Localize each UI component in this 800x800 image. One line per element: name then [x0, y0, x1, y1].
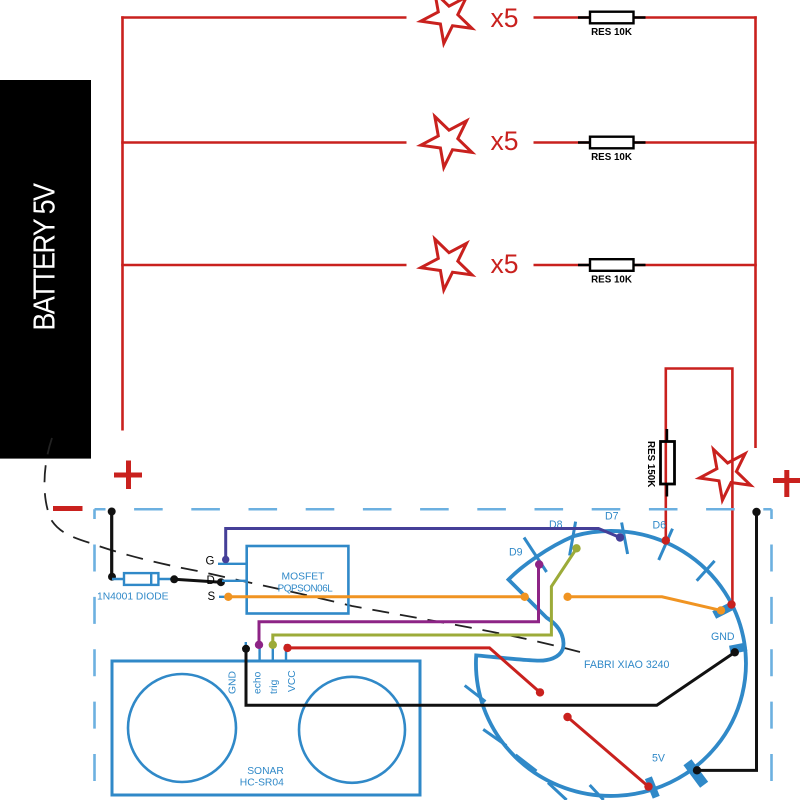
sonar HC-SR04 box [112, 661, 420, 795]
svg-text:D9: D9 [509, 547, 523, 559]
wire: VCC to 3V3 hole (red) [288, 648, 541, 693]
svg-text:RES 10K: RES 10K [591, 152, 632, 163]
pin tick tick [465, 686, 486, 702]
svg-text:echo: echo [253, 671, 264, 694]
pin GND tick [245, 642, 247, 661]
node: D6 red dot [662, 536, 670, 544]
node: battery + (left) [114, 461, 142, 490]
wire: minus rail to diode [110, 512, 113, 577]
resistor R1 RES 10K [578, 12, 646, 38]
svg-text:5V: 5V [652, 753, 666, 765]
svg-text:D: D [207, 575, 215, 587]
wire: LED row 1 left segment [121, 16, 406, 19]
svg-text:GND: GND [711, 631, 735, 643]
resistor R2 RES 10K [578, 137, 646, 163]
pad D10 [712, 601, 735, 619]
wire: hole to bottom pad (red) [568, 717, 649, 787]
pin S [219, 596, 248, 598]
node: battery + (right) [773, 470, 800, 497]
pin tick tick [697, 561, 715, 581]
wire: right + rail vertical [754, 16, 757, 448]
resistor R4 RES 150K [645, 429, 675, 497]
wire: source to D10 pad (orange) [228, 595, 524, 598]
LED star D3 (x5) [421, 239, 472, 290]
svg-text:x5: x5 [491, 249, 519, 279]
svg-text:RES 10K: RES 10K [591, 27, 632, 38]
pin D6 tick [659, 529, 673, 560]
wire: sonar GND to board GND (black) [246, 649, 735, 705]
pin D7 tick [622, 523, 628, 555]
wire: echo to D9 (magenta) [259, 565, 539, 645]
wire: 5V rail to board 5V pad (black) [697, 512, 757, 770]
node: pad red dot [727, 600, 735, 608]
svg-text:PQPSON06L: PQPSON06L [278, 584, 334, 595]
pad 5V [683, 759, 708, 787]
pin D9 tick [524, 538, 547, 573]
pad GND [729, 643, 747, 655]
wire: LED row 3 left segment [121, 264, 406, 267]
pin tick tick [548, 783, 567, 800]
svg-text:FABRI XIAO 3240: FABRI XIAO 3240 [584, 659, 669, 671]
LED star D1 (x5) [421, 0, 472, 43]
svg-text:D6: D6 [653, 520, 667, 532]
svg-text:VCC: VCC [287, 670, 298, 692]
pin tick tick [483, 729, 506, 745]
svg-text:x5: x5 [491, 126, 519, 156]
svg-text:RES 150K: RES 150K [645, 441, 656, 487]
pin VCC tick [285, 644, 287, 661]
wire: gate to D7 (indigo) [226, 529, 620, 560]
svg-text:RES 10K: RES 10K [591, 274, 632, 285]
svg-text:D7: D7 [605, 511, 619, 523]
enclosure dashed border left [93, 509, 96, 800]
svg-text:BATTERY 5V: BATTERY 5V [28, 182, 62, 330]
board FABRI XIAO 3240 outline [476, 531, 746, 796]
svg-text:SONAR: SONAR [247, 766, 284, 777]
pin echo tick [258, 644, 260, 661]
op: MOSFET Q1 PQPSON06L box [247, 546, 349, 614]
pin G [218, 563, 248, 565]
svg-text:S: S [208, 591, 216, 603]
wire: D6 to RES 150K to LED loop [666, 369, 733, 605]
wire: LED row 3 right segment [534, 264, 757, 267]
diode D5 1N4001 [97, 573, 174, 602]
LED star D4 (power) [699, 449, 750, 500]
wire: LED row 1 right segment [534, 16, 757, 19]
node: battery - (left) [53, 506, 83, 511]
resistor R3 RES 10K [578, 259, 646, 285]
svg-text:trig: trig [269, 679, 280, 694]
svg-text:HC-SR04: HC-SR04 [240, 778, 284, 789]
wire: battery + rail left vertical [121, 16, 124, 430]
svg-text:GND: GND [228, 671, 239, 694]
pin trig tick [272, 644, 274, 661]
wire: battery negative dashed line [44, 438, 580, 652]
pin D8 tick [570, 522, 576, 556]
enclosure dashed border right [770, 509, 773, 800]
wire: LED row 2 left segment [121, 141, 406, 144]
pin tick tick [516, 755, 537, 771]
wire: LED row 2 right segment [534, 141, 757, 144]
wire: trig to D8 (olive) [273, 549, 577, 645]
battery B1 [0, 80, 91, 459]
svg-text:x5: x5 [491, 3, 519, 33]
pad bottom [645, 776, 660, 798]
LED star D2 (x5) [421, 117, 472, 168]
wire: diode to MOSFET drain [170, 575, 178, 583]
enclosure dashed border top [95, 508, 772, 511]
pin D [222, 580, 248, 582]
pin tick tick [590, 785, 604, 800]
svg-text:MOSFET: MOSFET [282, 572, 326, 583]
svg-text:G: G [206, 556, 215, 568]
svg-text:1N4001 DIODE: 1N4001 DIODE [97, 592, 169, 603]
